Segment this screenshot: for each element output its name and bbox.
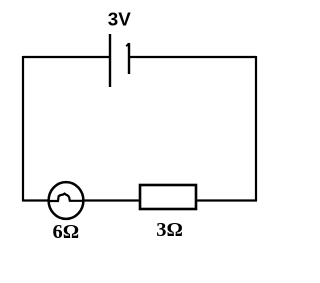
- battery B1 right plate (short): [128, 43, 130, 74]
- svg-text:6Ω: 6Ω: [53, 221, 80, 243]
- battery B1 left plate (long): [109, 34, 111, 87]
- lamp L1 envelope circle: [49, 182, 84, 219]
- resistor R1 box: [140, 185, 196, 209]
- lamp L1 filament with bump: [48, 194, 83, 201]
- wire bottom-right segment: [196, 199, 257, 201]
- wire top-right segment: [129, 56, 256, 58]
- wire left side: [22, 56, 24, 201]
- wire bottom-middle segment: [82, 199, 141, 201]
- battery B1 plate tick: [126, 43, 129, 46]
- wire top-left segment: [23, 56, 110, 58]
- wire bottom-left segment: [22, 199, 49, 201]
- svg-text:3V: 3V: [108, 8, 131, 29]
- wire right side: [255, 56, 257, 201]
- svg-text:3Ω: 3Ω: [156, 219, 183, 241]
